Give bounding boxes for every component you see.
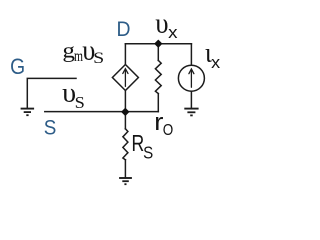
svg-text:G: G [10, 54, 25, 79]
svg-text:D: D [117, 16, 131, 41]
svg-text:S: S [143, 143, 153, 163]
svg-text:x: x [168, 23, 178, 42]
svg-text:x: x [211, 54, 220, 72]
svg-text:O: O [163, 122, 174, 139]
svg-text:S: S [75, 93, 85, 112]
svg-text:υ: υ [155, 7, 168, 39]
svg-text:S: S [93, 50, 104, 67]
svg-text:S: S [44, 116, 57, 140]
